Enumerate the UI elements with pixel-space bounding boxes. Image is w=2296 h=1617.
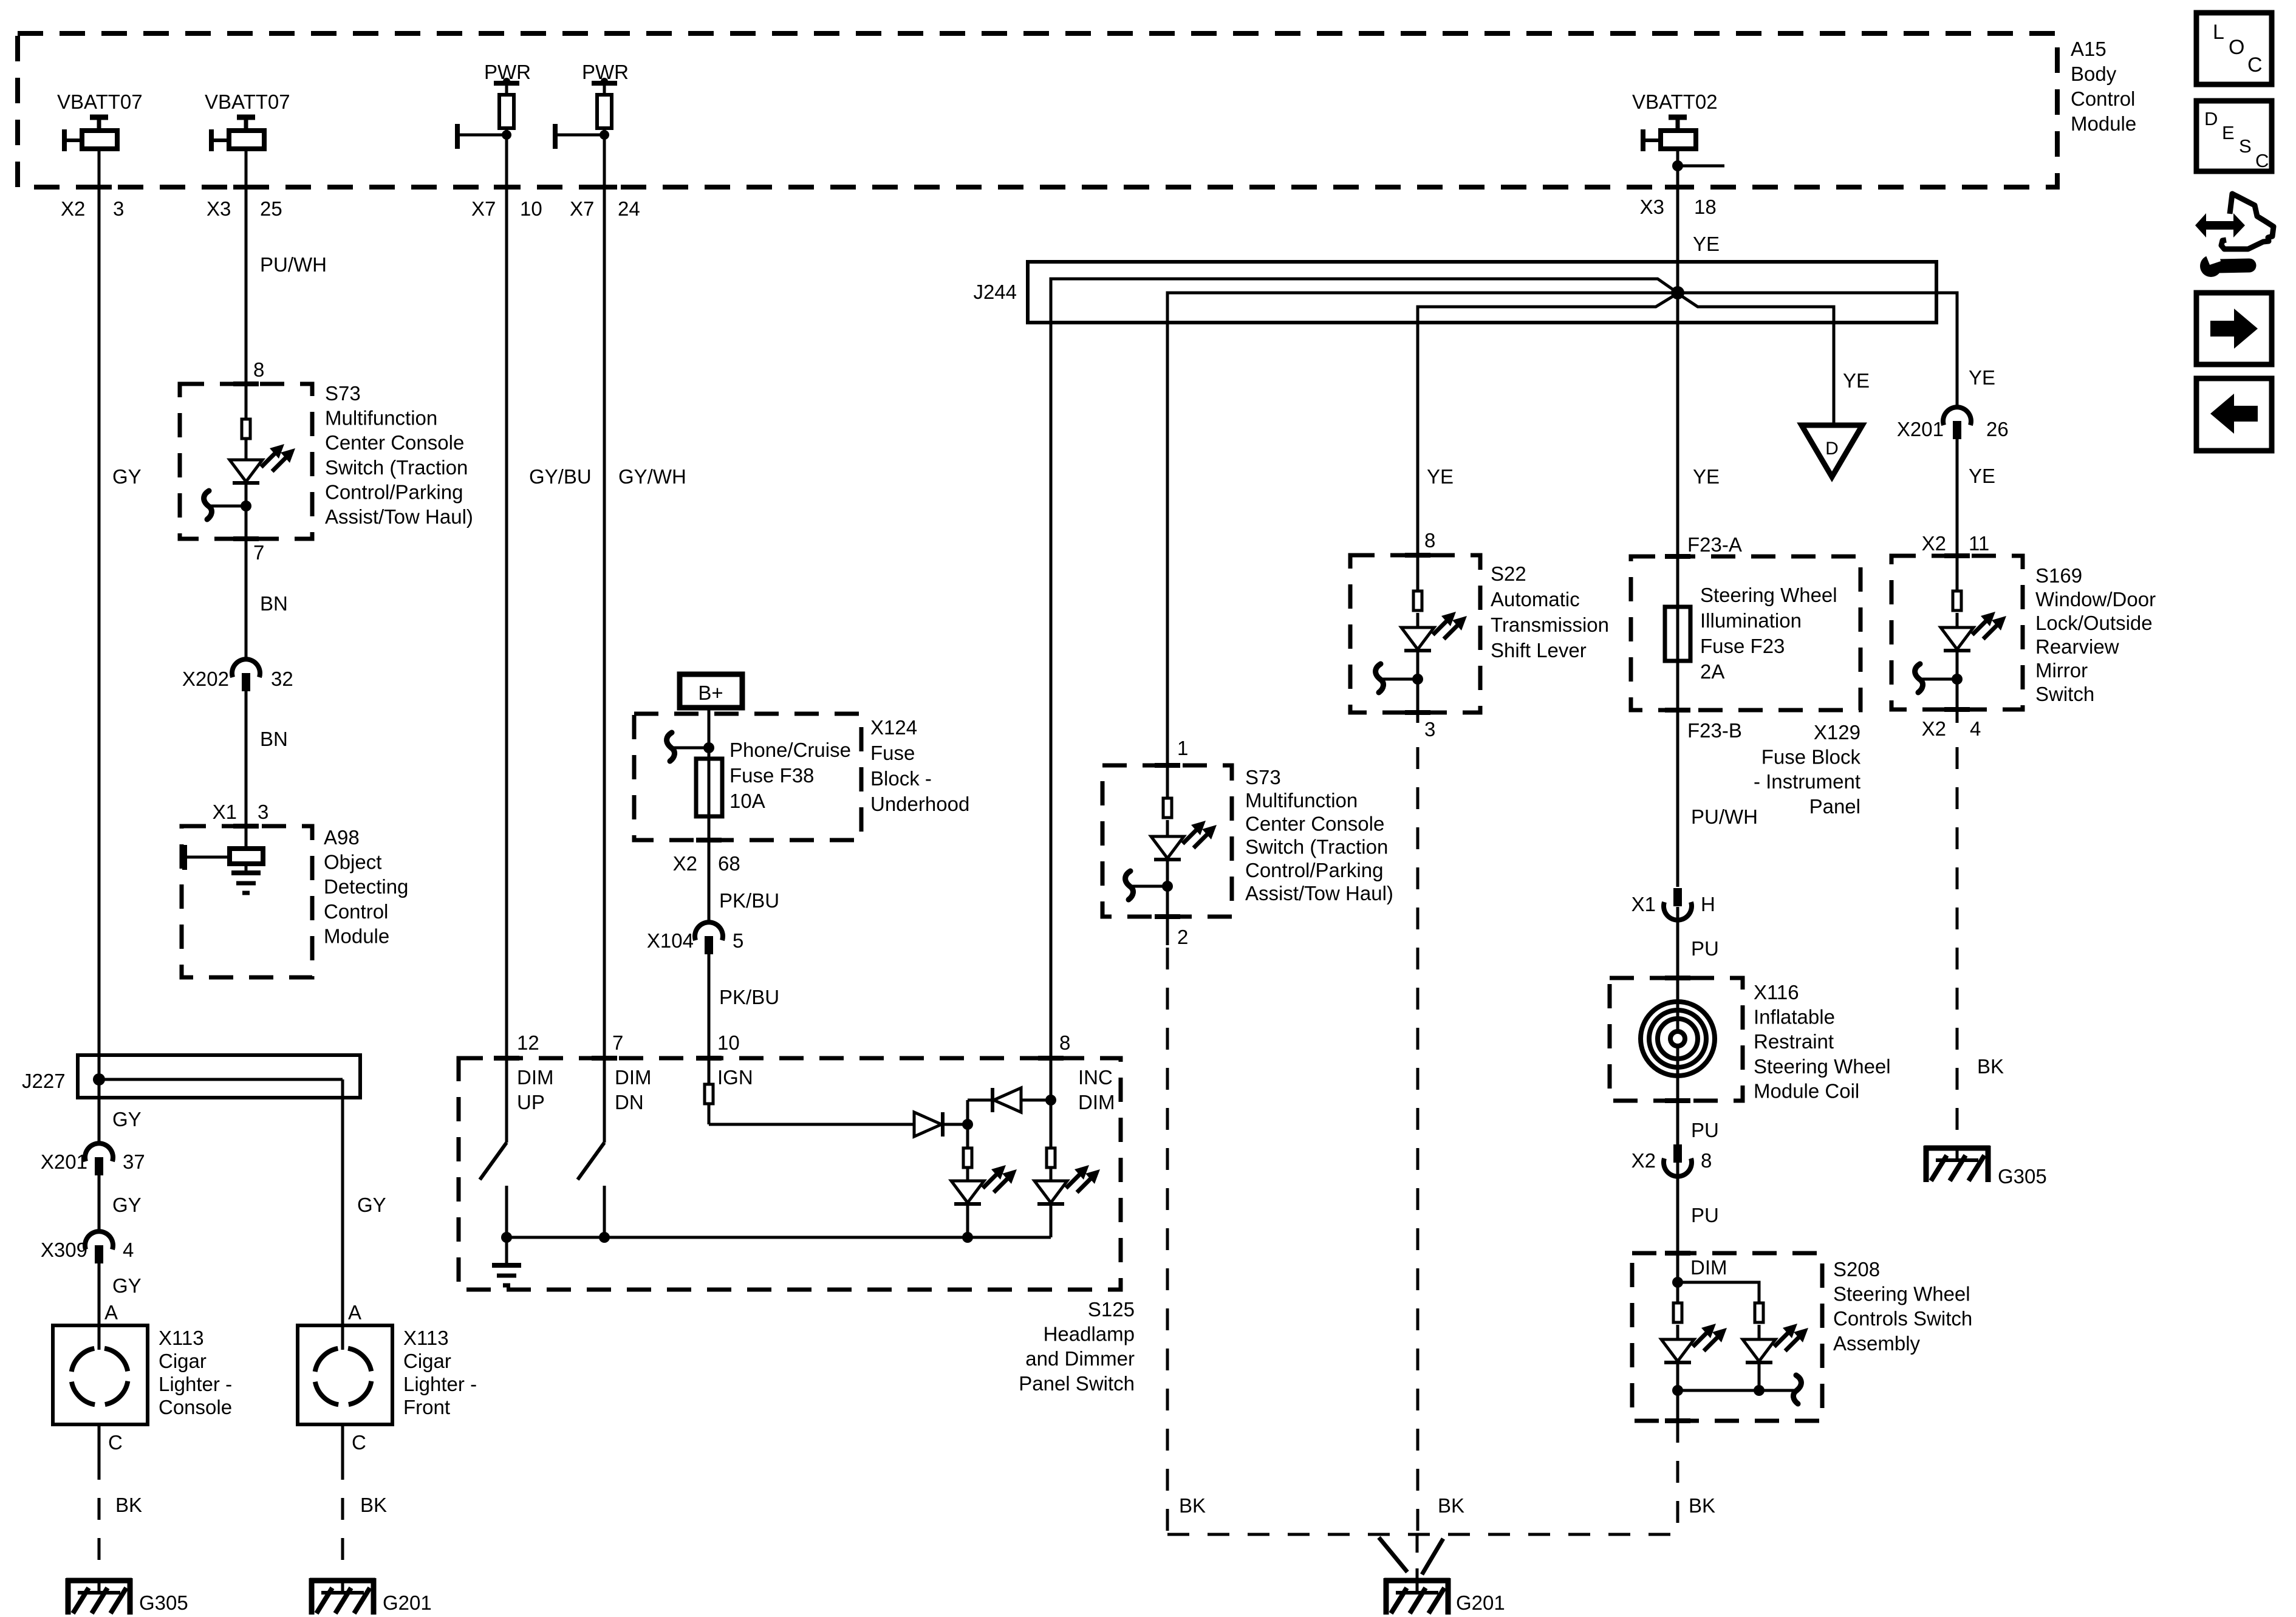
svg-text:YE: YE bbox=[1843, 369, 1870, 392]
svg-text:BN: BN bbox=[260, 592, 288, 615]
resistor in S169 bbox=[1953, 591, 1961, 610]
svg-text:GY/WH: GY/WH bbox=[618, 465, 686, 488]
wire BN to A98 bbox=[245, 691, 248, 826]
switch contact in S169 bbox=[1921, 678, 1957, 681]
svg-text:DIM: DIM bbox=[1078, 1091, 1115, 1113]
svg-text:S125: S125 bbox=[1088, 1298, 1135, 1321]
svg-text:Multifunction: Multifunction bbox=[325, 407, 437, 429]
svg-text:DIM: DIM bbox=[1690, 1256, 1727, 1279]
svg-text:BK: BK bbox=[1438, 1494, 1464, 1517]
svg-text:IGN: IGN bbox=[717, 1066, 753, 1089]
svg-text:G305: G305 bbox=[1998, 1165, 2047, 1188]
svg-text:Control: Control bbox=[324, 900, 388, 923]
svg-text:X7: X7 bbox=[471, 197, 496, 220]
svg-text:7: 7 bbox=[253, 541, 264, 564]
svg-text:Multifunction: Multifunction bbox=[1245, 789, 1358, 812]
svg-text:X3: X3 bbox=[1640, 196, 1664, 218]
svg-text:INC: INC bbox=[1078, 1066, 1113, 1089]
svg-text:X2: X2 bbox=[673, 852, 697, 875]
svg-text:68: 68 bbox=[718, 852, 740, 875]
svg-text:UP: UP bbox=[517, 1091, 545, 1113]
svg-text:Controls Switch: Controls Switch bbox=[1833, 1307, 1972, 1330]
wire GY to cigar lighter front bbox=[341, 1101, 344, 1325]
ground G201 (center) bbox=[1384, 1578, 1450, 1584]
svg-text:Switch (Traction: Switch (Traction bbox=[325, 456, 468, 479]
wire PU to X2-8 bbox=[1676, 1101, 1679, 1171]
wire pin 8 down bbox=[1050, 1058, 1053, 1100]
ground symbol in A98 bbox=[245, 864, 248, 873]
svg-text:G305: G305 bbox=[139, 1591, 188, 1614]
switch DIM UP blade bbox=[505, 1058, 508, 1143]
svg-text:3: 3 bbox=[1424, 718, 1435, 740]
resistor in S73 second bbox=[1163, 798, 1172, 818]
svg-text:PU: PU bbox=[1691, 1119, 1719, 1141]
svg-text:X1: X1 bbox=[1631, 893, 1656, 915]
svg-text:Steering Wheel: Steering Wheel bbox=[1754, 1055, 1891, 1078]
svg-text:10A: 10A bbox=[729, 790, 765, 812]
svg-text:Lighter -: Lighter - bbox=[159, 1373, 232, 1395]
svg-text:Fuse F23: Fuse F23 bbox=[1700, 635, 1785, 657]
connector X202 pin 32 bbox=[232, 659, 260, 677]
svg-text:2: 2 bbox=[1177, 926, 1188, 948]
svg-text:Restraint: Restraint bbox=[1754, 1030, 1834, 1053]
wire bbox=[1416, 651, 1420, 713]
svg-text:Panel Switch: Panel Switch bbox=[1019, 1372, 1135, 1395]
battery feed VBATT07 (X3-25) bbox=[237, 115, 255, 120]
svg-text:D: D bbox=[1825, 439, 1839, 459]
svg-text:B+: B+ bbox=[698, 682, 723, 704]
svg-text:PU: PU bbox=[1691, 1204, 1719, 1226]
wire PU/WH out of fuse F23 bbox=[1676, 661, 1679, 887]
svg-text:G201: G201 bbox=[383, 1591, 432, 1614]
svg-text:Module Coil: Module Coil bbox=[1754, 1079, 1859, 1102]
svg-text:VBATT07: VBATT07 bbox=[57, 91, 143, 113]
svg-text:S: S bbox=[2239, 135, 2252, 157]
splice pack J227 (bus) bbox=[78, 1055, 360, 1098]
svg-text:BK: BK bbox=[1689, 1494, 1715, 1517]
junction below VBATT02 bbox=[1672, 160, 1683, 171]
svg-text:X129: X129 bbox=[1814, 721, 1860, 744]
wire GY/BU down to S125 pin 12 bbox=[505, 128, 508, 1142]
svg-text:YE: YE bbox=[1693, 465, 1720, 488]
ground bus BK wires bbox=[1167, 1533, 1678, 1536]
svg-text:YE: YE bbox=[1969, 366, 1995, 389]
resistor right lamp S125 bbox=[1050, 1100, 1053, 1148]
svg-text:24: 24 bbox=[618, 197, 640, 220]
svg-text:3: 3 bbox=[258, 801, 268, 823]
wire bbox=[1956, 613, 1959, 627]
svg-text:8: 8 bbox=[253, 358, 264, 381]
svg-text:Switch (Traction: Switch (Traction bbox=[1245, 836, 1388, 858]
splice pack J244 (bus) bbox=[1028, 262, 1936, 323]
LED in S169 bbox=[1941, 627, 1973, 649]
svg-text:X3: X3 bbox=[207, 197, 231, 220]
svg-text:YE: YE bbox=[1969, 465, 1995, 487]
convergence to G201 bbox=[1379, 1537, 1407, 1572]
wire PU to S208 bbox=[1676, 1163, 1679, 1282]
wire BK to ground bus bbox=[1166, 917, 1169, 945]
svg-text:S208: S208 bbox=[1833, 1258, 1880, 1280]
resistor in S73 bbox=[242, 419, 250, 439]
svg-text:A: A bbox=[104, 1301, 118, 1324]
coil X116 Inflatable Restraint Steering Wheel Module (dashed box) bbox=[1610, 978, 1743, 1101]
svg-text:Control/Parking: Control/Parking bbox=[325, 480, 463, 503]
svg-text:X2: X2 bbox=[1631, 1149, 1656, 1172]
icon vehicle with wrench bbox=[2221, 194, 2274, 249]
svg-text:Steering Wheel: Steering Wheel bbox=[1700, 584, 1837, 606]
svg-text:18: 18 bbox=[1694, 196, 1717, 218]
battery feed VBATT07 (X2-3) bbox=[90, 115, 108, 120]
wire bbox=[1166, 820, 1169, 836]
switch contact in S22 bbox=[1381, 678, 1418, 681]
svg-text:F23-B: F23-B bbox=[1687, 719, 1742, 742]
svg-text:Front: Front bbox=[403, 1396, 450, 1418]
svg-text:YE: YE bbox=[1427, 465, 1454, 488]
svg-text:Transmission: Transmission bbox=[1491, 614, 1609, 636]
svg-text:Center Console: Center Console bbox=[325, 431, 464, 454]
wire to INC DIM pin bbox=[1021, 1099, 1051, 1102]
svg-text:YE: YE bbox=[1693, 233, 1720, 255]
svg-text:A: A bbox=[348, 1301, 361, 1324]
svg-text:O: O bbox=[2229, 36, 2244, 59]
svg-text:DIM: DIM bbox=[517, 1066, 554, 1089]
svg-text:X116: X116 bbox=[1754, 981, 1799, 1003]
resistor right in S208 bbox=[1755, 1303, 1763, 1322]
svg-text:BK: BK bbox=[1977, 1055, 2004, 1078]
svg-text:Lighter -: Lighter - bbox=[403, 1373, 477, 1395]
wire inside S22 bbox=[1416, 555, 1420, 591]
fuse F38 Phone/Cruise 10A bbox=[696, 759, 722, 816]
svg-text:E: E bbox=[2222, 122, 2235, 143]
wire YE down through J244 to fuse F23 bbox=[1676, 149, 1679, 607]
svg-text:Headlamp: Headlamp bbox=[1044, 1323, 1135, 1345]
wire GY to cigar lighter console bbox=[98, 1263, 101, 1325]
svg-text:J227: J227 bbox=[22, 1070, 66, 1092]
icon DESC box bbox=[2196, 101, 2272, 171]
svg-text:X113: X113 bbox=[403, 1327, 449, 1349]
connector X309 pin 4 bbox=[85, 1231, 113, 1249]
svg-text:26: 26 bbox=[1986, 418, 2009, 440]
svg-text:8: 8 bbox=[1424, 529, 1435, 552]
battery feed VBATT02 (X3-18) bbox=[1669, 115, 1687, 120]
svg-text:GY: GY bbox=[357, 1194, 386, 1216]
svg-text:GY/BU: GY/BU bbox=[529, 465, 592, 488]
svg-text:X201: X201 bbox=[1897, 418, 1944, 440]
svg-text:- Instrument: - Instrument bbox=[1754, 770, 1860, 793]
wire J227 internal branch bbox=[99, 1078, 343, 1081]
svg-text:PU/WH: PU/WH bbox=[1691, 805, 1758, 828]
svg-text:GY: GY bbox=[112, 465, 142, 488]
fusible element on IGN input bbox=[705, 1084, 713, 1104]
junction bbox=[962, 1119, 973, 1130]
wire BK out of S208 bbox=[1676, 1390, 1679, 1421]
svg-text:X201: X201 bbox=[41, 1150, 87, 1173]
switch S125 Headlamp and Dimmer Panel Switch (dashed box) bbox=[459, 1058, 1121, 1290]
fuse block X124 Underhood (dashed box) bbox=[634, 714, 861, 840]
connector X2 pin 8 bbox=[1673, 1144, 1682, 1163]
wire GY/WH down to S125 pin 7 bbox=[603, 128, 606, 1142]
switch S73 Multifunction Center Console second (box) bbox=[1102, 765, 1232, 917]
wire PK/BU out of fuse block bbox=[708, 816, 711, 921]
wire from B+ through fuse F38 bbox=[708, 708, 711, 759]
LED left lamp S125 bbox=[966, 1167, 969, 1181]
switch contact in S73 bbox=[210, 505, 246, 508]
switch DIM DN blade bbox=[603, 1058, 606, 1143]
resistor left in S208 bbox=[1676, 1282, 1679, 1303]
wire IGN to diode bbox=[709, 1123, 914, 1126]
svg-text:32: 32 bbox=[271, 668, 293, 690]
svg-text:4: 4 bbox=[1970, 717, 1981, 740]
svg-text:and Dimmer: and Dimmer bbox=[1025, 1347, 1135, 1370]
svg-text:2A: 2A bbox=[1700, 660, 1724, 683]
svg-text:Automatic: Automatic bbox=[1491, 588, 1580, 610]
switch S73 Multifunction Center Console (box) bbox=[180, 384, 312, 539]
svg-text:BK: BK bbox=[115, 1494, 142, 1516]
wire bbox=[1166, 860, 1169, 917]
ground G201 (left) bbox=[310, 1578, 375, 1584]
svg-text:1: 1 bbox=[1177, 737, 1188, 759]
wire bbox=[968, 1099, 993, 1102]
cigar lighter X113 - Front (box) bbox=[298, 1325, 392, 1424]
svg-text:Cigar: Cigar bbox=[159, 1350, 207, 1372]
switch contact in X124 bbox=[672, 747, 709, 750]
svg-text:A98: A98 bbox=[324, 826, 360, 849]
svg-text:X2: X2 bbox=[61, 197, 85, 220]
svg-text:Steering Wheel: Steering Wheel bbox=[1833, 1283, 1970, 1305]
wire PU to X116 bbox=[1676, 907, 1679, 1003]
svg-text:Center Console: Center Console bbox=[1245, 812, 1384, 835]
wire PK/BU to S125 pin 10 IGN bbox=[708, 954, 711, 1084]
svg-text:L: L bbox=[2213, 21, 2224, 44]
svg-text:11: 11 bbox=[1969, 532, 1989, 555]
svg-text:Cigar: Cigar bbox=[403, 1350, 451, 1372]
svg-text:4: 4 bbox=[123, 1239, 134, 1261]
svg-text:GY: GY bbox=[112, 1274, 142, 1297]
wire VBATT07 X2-3 down through splice J227 to X201 bbox=[98, 149, 101, 1143]
svg-text:Assist/Tow Haul): Assist/Tow Haul) bbox=[1245, 882, 1393, 904]
common return wire in S125 bbox=[507, 1236, 1051, 1239]
wire BK to ground bus bbox=[1416, 713, 1420, 723]
clockspring coil in X116 bbox=[1676, 978, 1679, 1101]
junction in J227 bbox=[93, 1073, 105, 1085]
module A15 Body Control Module (dashed box) bbox=[18, 33, 2057, 187]
svg-text:Module: Module bbox=[2071, 112, 2136, 135]
LED left in S208 bbox=[1676, 1325, 1679, 1339]
resistive feed PWR (X7-10) bbox=[494, 81, 519, 86]
svg-text:10: 10 bbox=[520, 197, 542, 220]
svg-text:Fuse Block: Fuse Block bbox=[1761, 746, 1861, 768]
svg-text:PK/BU: PK/BU bbox=[719, 889, 779, 912]
internal load of A98 bbox=[245, 826, 248, 849]
ground G305 (left) bbox=[66, 1578, 132, 1584]
svg-text:A15: A15 bbox=[2071, 38, 2106, 60]
svg-text:S169: S169 bbox=[2035, 564, 2082, 587]
power tap B+ bbox=[680, 674, 742, 708]
svg-text:DN: DN bbox=[615, 1091, 644, 1113]
svg-text:S22: S22 bbox=[1491, 562, 1526, 585]
junction DIM in S208 bbox=[1672, 1277, 1683, 1288]
svg-text:PU/WH: PU/WH bbox=[260, 253, 327, 276]
icon previous arrow box bbox=[2196, 378, 2272, 451]
svg-text:Underhood: Underhood bbox=[870, 793, 969, 815]
switch assembly S208 Steering Wheel Controls (dashed box) bbox=[1632, 1253, 1822, 1421]
svg-text:X104: X104 bbox=[647, 929, 694, 952]
connector X1 pin H bbox=[1673, 888, 1682, 906]
wire bbox=[1416, 613, 1420, 627]
svg-text:Fuse F38: Fuse F38 bbox=[729, 764, 814, 787]
svg-text:Block -: Block - bbox=[870, 767, 932, 790]
svg-text:Rearview: Rearview bbox=[2035, 635, 2119, 658]
wire to upper diode bbox=[966, 1100, 969, 1124]
connector X201 pin 37 bbox=[85, 1143, 113, 1161]
svg-text:Switch: Switch bbox=[2035, 683, 2094, 705]
svg-text:PU: PU bbox=[1691, 937, 1719, 960]
wire PU/WH down to S73 bbox=[245, 149, 248, 384]
svg-text:C: C bbox=[2247, 53, 2263, 77]
svg-text:Panel: Panel bbox=[1809, 795, 1860, 818]
LED in S73 bbox=[230, 460, 262, 482]
junction of J244 splice bbox=[1671, 286, 1684, 299]
svg-text:X124: X124 bbox=[870, 716, 917, 739]
svg-text:Control/Parking: Control/Parking bbox=[1245, 859, 1383, 881]
svg-text:Body: Body bbox=[2071, 63, 2117, 85]
module A98 Object Detecting Control Module (box) bbox=[182, 826, 312, 977]
wire across S208 bottom bbox=[1678, 1389, 1759, 1392]
svg-text:GY: GY bbox=[112, 1108, 142, 1130]
svg-text:X202: X202 bbox=[182, 668, 229, 690]
diode D2 in S125 bbox=[991, 1088, 994, 1112]
LED right in S208 bbox=[1758, 1325, 1761, 1339]
pointer D (triangle) bbox=[1802, 425, 1862, 477]
wire to ground G201 bbox=[341, 1424, 344, 1458]
svg-text:Illumination: Illumination bbox=[1700, 609, 1802, 632]
wire bbox=[245, 483, 248, 539]
svg-text:VBATT07: VBATT07 bbox=[205, 91, 290, 113]
svg-text:C: C bbox=[2255, 150, 2269, 171]
svg-text:8: 8 bbox=[1059, 1031, 1070, 1054]
J244 wire C to S22 pin 8 and D pointer bbox=[1418, 293, 1834, 555]
svg-text:X7: X7 bbox=[570, 197, 594, 220]
diode D1 in S125 bbox=[914, 1112, 941, 1137]
svg-text:G201: G201 bbox=[1456, 1591, 1505, 1614]
svg-text:H: H bbox=[1701, 893, 1715, 915]
svg-text:37: 37 bbox=[123, 1150, 145, 1173]
svg-text:3: 3 bbox=[113, 197, 124, 220]
svg-text:Shift Lever: Shift Lever bbox=[1491, 639, 1587, 661]
wire inside S73 bbox=[245, 384, 248, 419]
svg-text:BN: BN bbox=[260, 728, 288, 750]
svg-text:10: 10 bbox=[717, 1031, 740, 1054]
svg-text:PK/BU: PK/BU bbox=[719, 986, 779, 1008]
svg-text:DIM: DIM bbox=[615, 1066, 652, 1089]
svg-text:Console: Console bbox=[159, 1396, 232, 1418]
switch S169 Window/Door Lock Mirror (box) bbox=[1891, 556, 2023, 709]
svg-text:Phone/Cruise: Phone/Cruise bbox=[729, 739, 851, 761]
ground G305 (right) bbox=[1924, 1146, 1990, 1151]
svg-text:GY: GY bbox=[112, 1194, 142, 1216]
connector X104 pin 5 bbox=[695, 922, 723, 940]
svg-text:Mirror: Mirror bbox=[2035, 659, 2088, 682]
cigar lighter X113 - Console (box) bbox=[53, 1325, 148, 1424]
svg-text:J244: J244 bbox=[973, 281, 1017, 303]
svg-text:Control: Control bbox=[2071, 87, 2135, 110]
resistor left lamp S125 bbox=[966, 1124, 969, 1148]
J244 wire B to S73 pin 1 and S169 bbox=[1167, 293, 1957, 765]
svg-text:Module: Module bbox=[324, 925, 389, 947]
svg-text:X309: X309 bbox=[41, 1239, 87, 1261]
svg-text:5: 5 bbox=[733, 929, 743, 952]
switch contact in S208 bbox=[1759, 1389, 1795, 1392]
J244 wire A to S125 pin 8 bbox=[1051, 279, 1678, 1058]
wire to ground G305 bbox=[98, 1424, 101, 1458]
svg-text:BK: BK bbox=[1179, 1494, 1206, 1517]
ground in S125 bbox=[505, 1237, 508, 1265]
svg-text:VBATT02: VBATT02 bbox=[1632, 91, 1718, 113]
icon LOC box bbox=[2196, 13, 2272, 84]
junction on pin 8 wire bbox=[1045, 1095, 1056, 1106]
fuse F23 Steering Wheel Illumination 2A bbox=[1665, 607, 1690, 661]
svg-text:Lock/Outside: Lock/Outside bbox=[2035, 612, 2153, 634]
icon next arrow box bbox=[2196, 293, 2272, 364]
svg-text:12: 12 bbox=[517, 1031, 539, 1054]
switch contact in S73 second bbox=[1131, 885, 1167, 888]
LED in S73 second bbox=[1151, 836, 1184, 858]
svg-text:25: 25 bbox=[260, 197, 282, 220]
svg-text:C: C bbox=[352, 1431, 366, 1454]
switch S22 Automatic Transmission Shift Lever (box) bbox=[1350, 555, 1480, 713]
svg-text:X2: X2 bbox=[1922, 717, 1946, 740]
svg-text:S73: S73 bbox=[325, 382, 361, 405]
wire BN to X202 bbox=[245, 539, 248, 658]
svg-text:F23-A: F23-A bbox=[1687, 533, 1742, 556]
svg-text:Assembly: Assembly bbox=[1833, 1332, 1921, 1355]
resistive feed PWR (X7-24) bbox=[592, 81, 617, 86]
resistor in S22 bbox=[1413, 591, 1422, 610]
wire bbox=[944, 1123, 968, 1126]
svg-text:BK: BK bbox=[360, 1494, 387, 1516]
LED in S22 bbox=[1401, 627, 1434, 649]
wire bbox=[1956, 651, 1959, 709]
svg-text:Object: Object bbox=[324, 851, 381, 873]
fuse block X129 Instrument Panel (dashed box) bbox=[1631, 556, 1860, 710]
svg-text:8: 8 bbox=[1701, 1149, 1712, 1172]
svg-text:X113: X113 bbox=[159, 1327, 204, 1349]
wire bbox=[245, 439, 248, 460]
wire inside S169 bbox=[1956, 556, 1959, 591]
svg-text:C: C bbox=[108, 1431, 123, 1454]
wire BK to ground G305 bbox=[1956, 709, 1959, 723]
branch wire in S208 bbox=[1678, 1282, 1759, 1303]
junction left in S208 bbox=[1672, 1385, 1683, 1396]
wire YE to S169 bbox=[1956, 439, 1959, 556]
svg-text:Fuse: Fuse bbox=[870, 742, 915, 764]
svg-text:X1: X1 bbox=[213, 801, 237, 823]
wire GY to X309 bbox=[98, 1175, 101, 1231]
wire inside S73 second bbox=[1166, 765, 1169, 798]
svg-text:Inflatable: Inflatable bbox=[1754, 1006, 1835, 1028]
svg-text:X2: X2 bbox=[1922, 532, 1946, 555]
svg-text:S73: S73 bbox=[1245, 766, 1281, 788]
svg-text:Assist/Tow Haul): Assist/Tow Haul) bbox=[325, 505, 473, 528]
svg-text:Window/Door: Window/Door bbox=[2035, 588, 2156, 610]
svg-text:7: 7 bbox=[612, 1031, 623, 1054]
LED right lamp S125 bbox=[1050, 1167, 1053, 1181]
svg-text:Detecting: Detecting bbox=[324, 875, 408, 898]
connector X201 pin 26 bbox=[1943, 407, 1971, 425]
svg-text:D: D bbox=[2204, 108, 2218, 129]
